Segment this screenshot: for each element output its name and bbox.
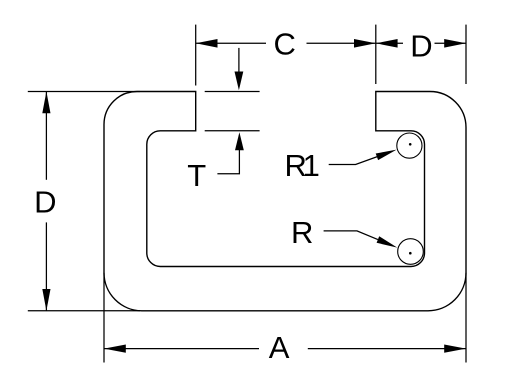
svg-text:R1: R1: [285, 148, 320, 183]
svg-text:R: R: [291, 215, 313, 250]
svg-text:A: A: [269, 330, 290, 365]
svg-text:C: C: [274, 27, 296, 62]
svg-text:D: D: [410, 29, 432, 64]
svg-text:D: D: [34, 184, 56, 219]
svg-text:T: T: [187, 158, 206, 193]
